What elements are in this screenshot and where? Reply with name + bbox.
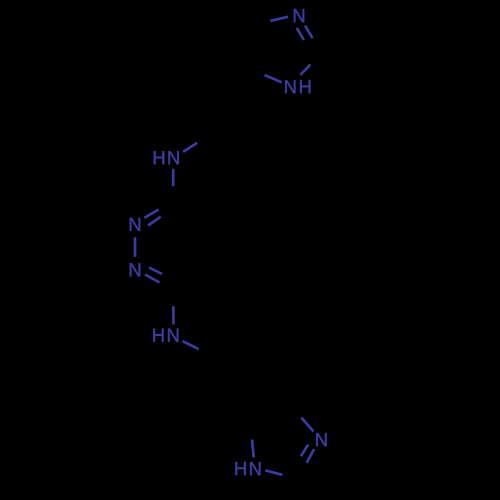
double bond N3=C2 top imidazole, main line (305, 26, 313, 38)
bond C2-N1 top imidazole, blue half (300, 65, 310, 76)
double bond N1=C6 central, main line (145, 275, 160, 283)
bond N2-N1 central (134, 237, 137, 257)
atom N1H (top imidazole) letter H (300, 80, 310, 93)
bond NH-CH2 bottom linker, blue half (183, 341, 199, 349)
double bond N3=C2 bottom imidazole, main line (307, 449, 315, 463)
double bond C3=N2 central, inner line (148, 217, 161, 226)
bond NH-C3 central, blue half (172, 169, 175, 187)
bond N1-C2 bottom imidazole, blue half (265, 470, 282, 474)
bond NH-CH2 top linker, blue half (183, 143, 197, 152)
bond N1-C5 top imidazole, blue half (265, 75, 282, 82)
double bond N1=C6 central, inner line (149, 268, 162, 275)
atom N3 (bottom imidazole) (316, 433, 326, 446)
bond C6-NH central, blue half (172, 306, 175, 324)
bond N1-C5 bottom imidazole, blue half (252, 440, 254, 458)
atom N1H (bottom imidazole) letter N (250, 462, 260, 475)
amine NH (bottom linker) letter N (168, 329, 178, 342)
bond C4-N3 bottom imidazole, blue half (301, 418, 313, 432)
atom N1 (central) (130, 263, 140, 276)
amine NH (top linker) letter H (154, 151, 164, 164)
atom N1H (top imidazole) letter N (285, 80, 295, 93)
double bond N3=C2 bottom imidazole, inner line (301, 445, 308, 457)
double bond N3=C2 top imidazole, inner line (297, 28, 304, 40)
atom N3 (top imidazole) (294, 9, 304, 22)
amine NH (bottom linker) letter H (153, 329, 163, 342)
amine NH (top linker) letter N (168, 151, 178, 164)
atom N2 (central) (130, 218, 140, 231)
bond N3-C4 top imidazole, blue half (270, 17, 288, 21)
atom N1H (bottom imidazole) letter H (235, 462, 245, 475)
double bond C3=N2 central, main line (144, 210, 158, 218)
